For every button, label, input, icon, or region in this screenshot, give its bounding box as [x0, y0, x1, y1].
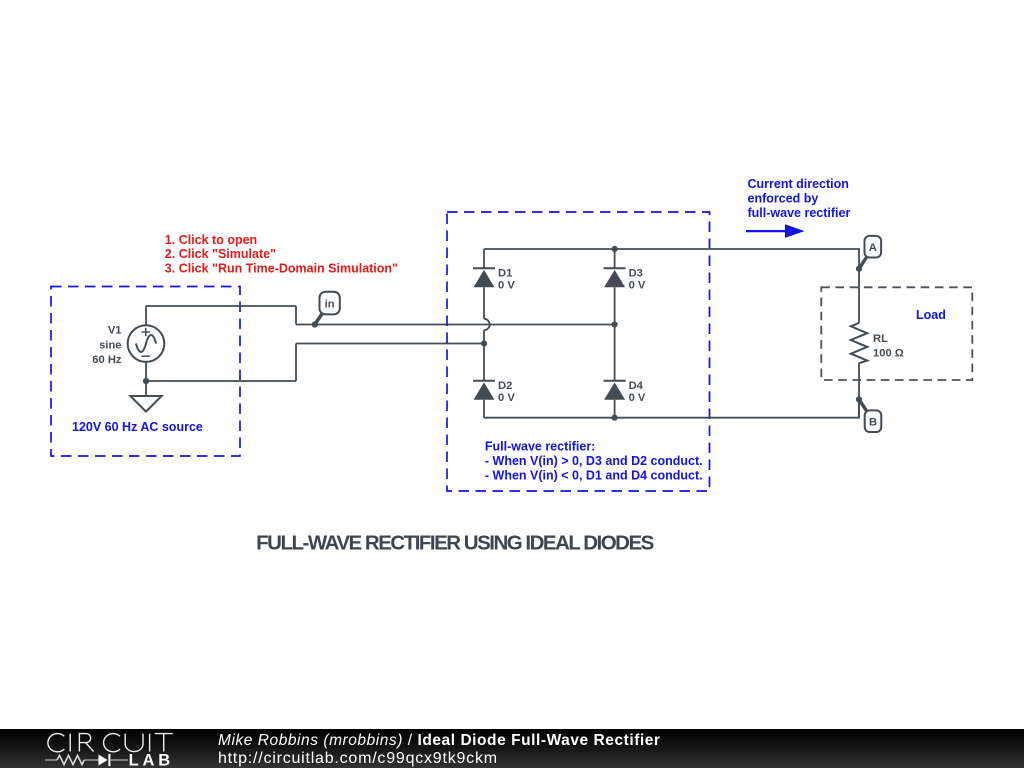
- label RL value 100 ohm: [873, 347, 904, 359]
- label D4: [629, 380, 644, 392]
- wire: left branch from D1 to hop: [483, 287, 485, 319]
- blue note: Load: [916, 308, 946, 322]
- wire: top rail from left branch to node A corner: [484, 249, 859, 269]
- wire: bottom horizontal from V1 node to step: [146, 380, 296, 382]
- label D2 value 0 V: [498, 392, 515, 404]
- wire: left branch from hop to mid node: [483, 330, 485, 343]
- svg-text:120V 60 Hz AC source: 120V 60 Hz AC source: [72, 420, 203, 434]
- resistor RL zigzag: [851, 323, 868, 363]
- junction dot: top rail at right branch: [612, 246, 618, 252]
- svg-text:- When V(in) > 0, D3 and D2 co: - When V(in) > 0, D3 and D2 conduct.: [485, 454, 703, 468]
- wire: node in horizontal run to bridge right branch: [296, 324, 615, 326]
- annotation box: Load dashed gray rect: [821, 287, 972, 380]
- red note line 2: [165, 247, 276, 261]
- wire: step up at x=296: [295, 344, 297, 382]
- blue current direction arrow: [746, 224, 805, 238]
- svg-text:- When V(in) < 0, D1 and D4 co: - When V(in) < 0, D1 and D4 conduct.: [485, 468, 703, 482]
- wire: lower horizontal to bridge left branch: [296, 343, 484, 345]
- svg-text:0 V: 0 V: [629, 392, 646, 404]
- node flag A: [859, 236, 881, 269]
- blue note: current direction line 2: [748, 191, 819, 205]
- svg-text:100 Ω: 100 Ω: [873, 347, 904, 359]
- V1 plus sign: [142, 328, 151, 337]
- svg-text:FULL-WAVE RECTIFIER USING IDEA: FULL-WAVE RECTIFIER USING IDEAL DIODES: [256, 531, 653, 554]
- svg-text:enforced by: enforced by: [748, 191, 819, 205]
- svg-text:V1: V1: [108, 325, 122, 337]
- logo resistor-diode symbol: [45, 759, 128, 761]
- label D1: [498, 268, 512, 280]
- node flag B: [859, 400, 881, 433]
- label D3: [629, 268, 643, 280]
- svg-text:sine: sine: [99, 339, 121, 351]
- svg-text:Full-wave rectifier:: Full-wave rectifier:: [485, 440, 595, 454]
- red note line 3: [165, 262, 398, 276]
- logo LAB text: [129, 751, 174, 768]
- logo resistor zigzag: [57, 755, 84, 764]
- svg-text:0 V: 0 V: [498, 392, 515, 404]
- V1 sine squiggle: [136, 335, 156, 352]
- wire: left branch lower segment: [483, 400, 485, 418]
- junction dot: right branch mid node (in): [612, 321, 618, 327]
- svg-text:1. Click to open: 1. Click to open: [165, 233, 257, 247]
- svg-text:2. Click "Simulate": 2. Click "Simulate": [165, 247, 276, 261]
- svg-text:B: B: [869, 417, 877, 429]
- wire: top horizontal from V1 to step: [146, 305, 296, 307]
- diode D2: [473, 381, 495, 400]
- annotation box: 120V source dashed blue rect: [51, 287, 240, 457]
- junction dot: node A: [856, 266, 862, 272]
- svg-text:3. Click "Run Time-Domain Simu: 3. Click "Run Time-Domain Simulation": [165, 262, 398, 276]
- diode D1: [473, 268, 495, 287]
- diode D3: [604, 268, 626, 287]
- wire: right branch middle segment: [614, 287, 616, 381]
- logo diode triangle: [98, 754, 107, 765]
- junction dot: left branch mid node: [481, 340, 487, 346]
- diode D4: [604, 381, 626, 400]
- svg-text:in: in: [325, 299, 335, 311]
- ground symbol: [130, 396, 161, 412]
- blue note: full-wave rectifier line 3: [485, 468, 703, 482]
- blue note: full-wave rectifier line 1: [485, 440, 595, 454]
- svg-text:RL: RL: [873, 333, 888, 345]
- svg-text:D4: D4: [629, 380, 644, 392]
- footer bar: [0, 729, 1024, 768]
- svg-text:0 V: 0 V: [629, 279, 646, 291]
- wire hop over node-in wire: [484, 319, 490, 330]
- annotation box: full-wave rectifier dashed blue rect: [447, 212, 710, 491]
- svg-text:0 V: 0 V: [498, 279, 515, 291]
- footer credit line: [218, 732, 661, 750]
- blue note: 120V 60 Hz AC source: [72, 420, 203, 434]
- footer url line: [218, 750, 498, 768]
- blue note: current direction line 1: [748, 177, 849, 191]
- svg-text:LAB: LAB: [129, 751, 174, 768]
- label V1 type sine: [99, 339, 121, 351]
- svg-text:Current direction: Current direction: [748, 177, 849, 191]
- V1 minus sign: [142, 355, 151, 357]
- label RL: [873, 333, 888, 345]
- wire: V1 top to corner: [145, 306, 147, 325]
- svg-text:Load: Load: [916, 308, 946, 322]
- label D1 value 0 V: [498, 279, 515, 291]
- svg-text:D3: D3: [629, 268, 643, 280]
- label V1 frequency 60 Hz: [92, 354, 122, 366]
- label V1: [108, 325, 122, 337]
- CircuitLab logo wordmark CIRCUIT: [48, 734, 173, 752]
- red note line 1: [165, 233, 257, 247]
- wire: right branch upper segment: [614, 249, 616, 268]
- wire: node A to resistor top: [858, 269, 860, 323]
- schematic title: [256, 531, 653, 554]
- junction dot: V1 bottom node: [143, 378, 149, 384]
- node flag in: [315, 292, 340, 325]
- label D2: [498, 380, 512, 392]
- blue note: current direction line 3: [748, 206, 851, 220]
- junction dot: bottom rail at right branch: [612, 415, 618, 421]
- svg-text:A: A: [869, 242, 877, 254]
- logo diode cathode bar: [108, 754, 110, 766]
- wire: left branch mid node to D2: [483, 344, 485, 381]
- svg-text:D1: D1: [498, 268, 512, 280]
- label D3 value 0 V: [629, 279, 646, 291]
- junction dot: node in: [312, 321, 318, 327]
- svg-text:60 Hz: 60 Hz: [92, 354, 122, 366]
- wire: V1 bottom to ground junction: [145, 362, 147, 396]
- wire: right branch lower segment: [614, 400, 616, 418]
- blue note: full-wave rectifier line 2: [485, 454, 703, 468]
- label D4 value 0 V: [629, 392, 646, 404]
- voltage source V1 circle: [128, 325, 165, 362]
- wire: left branch upper segment: [483, 249, 485, 268]
- svg-text:D2: D2: [498, 380, 512, 392]
- junction dot: node B: [856, 396, 862, 402]
- wire: resistor bottom to node B corner: [858, 363, 860, 418]
- svg-text:full-wave rectifier: full-wave rectifier: [748, 206, 851, 220]
- wire: bottom rail from left branch to node B corner: [484, 400, 859, 418]
- wire: step down at x=296: [295, 306, 297, 325]
